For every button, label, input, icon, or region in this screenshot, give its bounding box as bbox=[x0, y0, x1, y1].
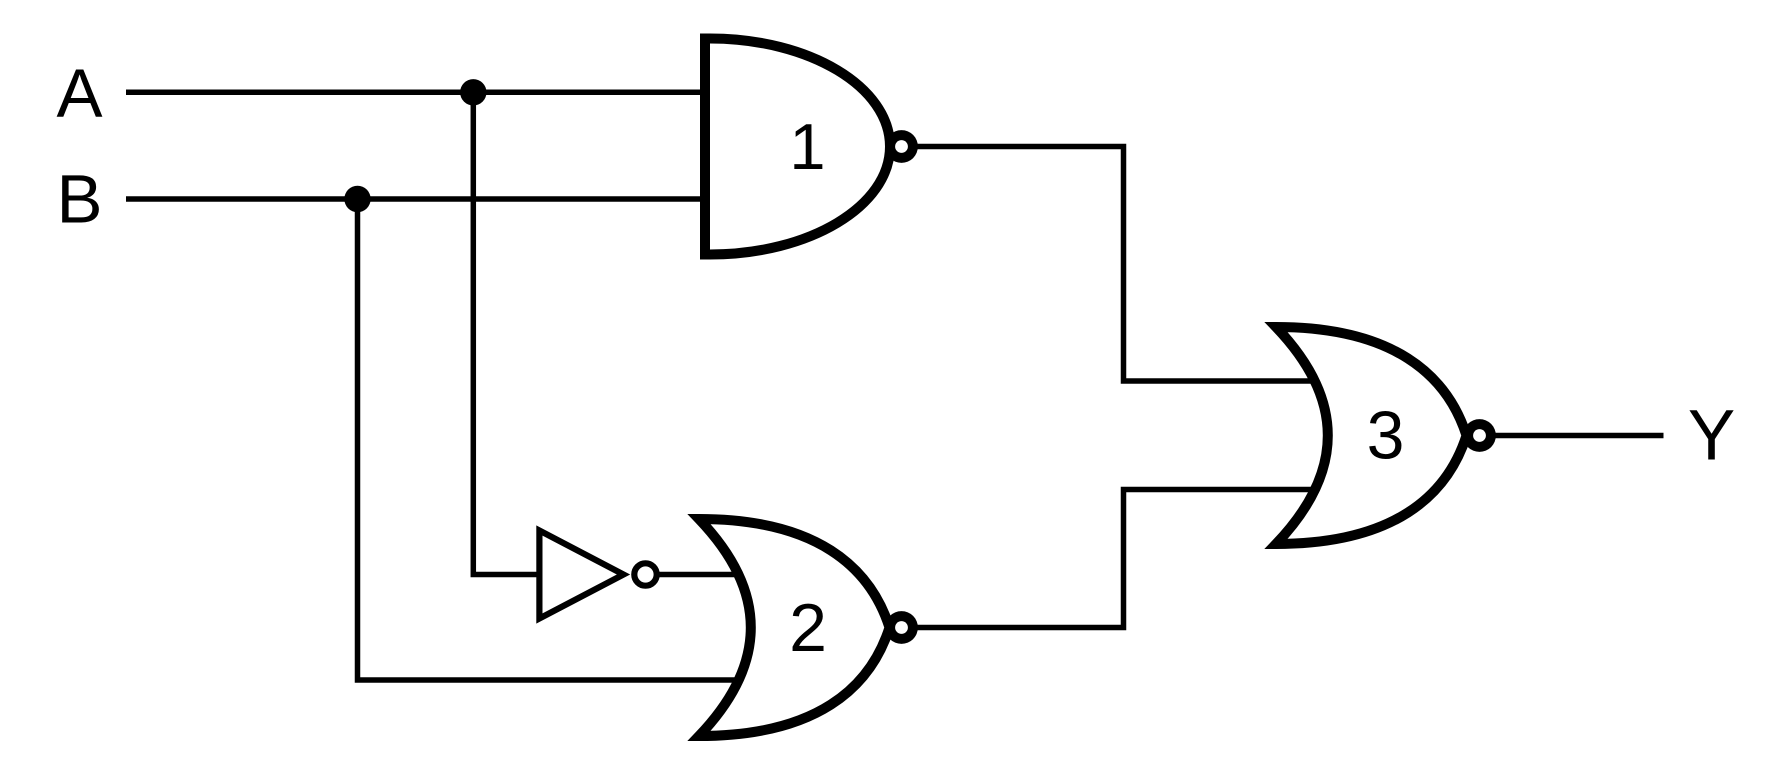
NAND gate 1 body bbox=[705, 39, 890, 255]
NOR gate 3 body bbox=[1276, 327, 1467, 544]
svg-text:1: 1 bbox=[789, 110, 825, 183]
wire branch from node A down to inverter bbox=[473, 92, 540, 574]
wire NOR gate 2 output to NOR gate 3 lower input bbox=[912, 490, 1316, 628]
NOR gate 2 output bubble bbox=[885, 611, 918, 644]
svg-text:2: 2 bbox=[789, 590, 827, 666]
svg-text:Y: Y bbox=[1688, 397, 1735, 476]
NAND gate 1 output bubble bbox=[885, 130, 918, 163]
wire input B bbox=[126, 196, 708, 202]
wire inverter output to NOR gate 2 upper input bbox=[656, 572, 742, 578]
node B junction dot bbox=[344, 186, 370, 212]
node A junction dot bbox=[460, 79, 486, 105]
NOR gate 3 output bubble bbox=[1463, 419, 1496, 452]
wire NOR gate 3 output to Y bbox=[1494, 433, 1664, 439]
svg-text:A: A bbox=[56, 55, 102, 132]
wire NAND gate 1 output to NOR gate 3 upper input bbox=[912, 147, 1316, 382]
inverter output bubble bbox=[634, 563, 656, 585]
NOR gate 2 body bbox=[699, 519, 890, 736]
inverter (NOT gate) triangle bbox=[539, 531, 623, 619]
wire input A bbox=[126, 90, 708, 96]
svg-text:B: B bbox=[56, 161, 102, 238]
svg-text:3: 3 bbox=[1367, 398, 1405, 474]
wire branch from node B down to NOR gate 2 lower input bbox=[358, 199, 741, 680]
